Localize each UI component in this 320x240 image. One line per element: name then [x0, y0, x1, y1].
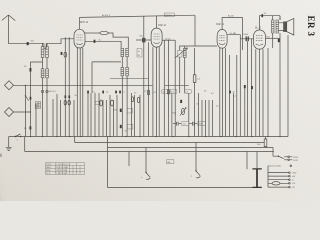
ground [6, 137, 12, 151]
svg-text:Ah 307 V: Ah 307 V [102, 14, 111, 17]
potentiometer [180, 108, 186, 116]
wire V1 anode up [79, 17, 81, 29]
resistor [100, 100, 103, 106]
component row labels [53, 90, 237, 108]
junction dots [30, 136, 281, 137]
label box [95, 101, 100, 104]
svg-text:Naf: Naf [267, 36, 271, 38]
svg-text:30 1 15 2 45 8: 30 1 15 2 45 8 [56, 170, 67, 172]
svg-text:Netzanschluß: Netzanschluß [269, 165, 282, 168]
label box [127, 124, 132, 129]
trimmer capacitor [41, 90, 43, 92]
wire [194, 48, 196, 137]
terminal rows [268, 166, 297, 189]
rail B [108, 137, 274, 148]
capacitor [120, 109, 122, 112]
wire [265, 137, 267, 148]
chassis rectangle [108, 148, 253, 188]
wire V1 to resistor [85, 32, 100, 34]
ground bus [9, 136, 288, 138]
tube V1 DCH11 [74, 29, 85, 48]
svg-text:Naf: Naf [140, 36, 144, 38]
svg-text:DAF11: DAF11 [46, 166, 51, 169]
label box [137, 49, 142, 58]
oscillator coil box [178, 51, 183, 58]
capacitor [261, 14, 263, 17]
IF transformer T1 coils [121, 48, 124, 56]
capacitor C1 [27, 42, 29, 45]
wire [110, 78, 149, 80]
svg-text:45 75 0,2 45 30: 45 75 0,2 45 30 [56, 167, 68, 169]
wire [30, 62, 42, 137]
output transformer primary [272, 20, 275, 33]
label [162, 90, 169, 93]
capacitor [94, 40, 96, 43]
coil L1a [41, 47, 44, 58]
wire V4 anode to transformer [259, 16, 280, 30]
AVC bus wire [165, 84, 189, 86]
wire to band filter / V1 grid [29, 39, 74, 49]
pickup diamond 1 [5, 81, 14, 90]
switch S1 [141, 148, 150, 180]
tube V2 DAF11 [151, 28, 162, 47]
table [46, 163, 85, 175]
antenna [2, 15, 16, 44]
capacitor [244, 85, 246, 88]
label 300 ohm boxed [164, 13, 174, 17]
wire coil links [43, 44, 48, 137]
capacitor [115, 91, 117, 94]
wire V2 top cap [156, 16, 158, 28]
capacitor [65, 95, 67, 98]
input switch [25, 96, 28, 101]
coil L4b [38, 102, 40, 109]
label [170, 90, 177, 93]
capacitor [87, 91, 89, 94]
svg-text:ER 3: ER 3 [306, 16, 316, 37]
capacitor [68, 95, 70, 98]
capacitor [251, 86, 253, 89]
wire V3 top [222, 18, 242, 51]
resistor [167, 89, 169, 94]
capacitor [30, 97, 32, 100]
capacitor [120, 125, 122, 128]
svg-text:220V: 220V [293, 157, 298, 159]
label box Wk [167, 160, 174, 164]
pickup diamond 2 [5, 108, 14, 117]
label boxed [182, 122, 189, 126]
svg-text:DAF 11: DAF 11 [216, 23, 224, 26]
svg-text:Reg: Reg [173, 113, 177, 115]
label box [127, 108, 132, 113]
resistor [111, 100, 114, 106]
capacitor symbol [189, 122, 197, 126]
resistor [64, 100, 66, 105]
grid capacitor [142, 38, 143, 43]
wire V2 anode right [162, 39, 175, 41]
resistor R5 [193, 75, 196, 83]
coil L2a [41, 69, 44, 78]
svg-text:12 kΩ: 12 kΩ [165, 38, 171, 40]
wire [77, 48, 117, 137]
svg-text:2,1 90 15 30 5: 2,1 90 15 30 5 [56, 173, 67, 175]
wire [132, 37, 189, 137]
junction [25, 85, 26, 86]
wire [122, 57, 127, 137]
wire [129, 152, 247, 170]
resistor [147, 90, 149, 95]
arrow [176, 48, 188, 58]
wire [199, 39, 269, 137]
wire V3 plate to V4 grid [227, 35, 253, 39]
label boxed [198, 122, 205, 126]
coupling capacitor [246, 36, 247, 41]
svg-text:DCH11: DCH11 [46, 164, 51, 166]
wire V1 screen [85, 41, 121, 48]
svg-text:300 Ω: 300 Ω [165, 15, 171, 17]
resistor R mains [264, 139, 267, 147]
wire transformer to speaker [273, 16, 284, 137]
svg-text:DAF11: DAF11 [46, 169, 51, 172]
vertical wires comb [36, 40, 74, 137]
svg-text:DCH 11: DCH 11 [80, 22, 89, 24]
capacitor [30, 126, 32, 129]
capacitor [278, 39, 280, 42]
svg-text:+90V: +90V [292, 173, 297, 175]
wire drop [194, 15, 196, 46]
wire [24, 85, 26, 136]
tube V3 DAF11 [217, 30, 227, 49]
coil L4a [35, 102, 37, 109]
svg-text:0,1 MΩ: 0,1 MΩ [230, 33, 237, 35]
battery [252, 152, 261, 188]
svg-text:Wk: Wk [168, 162, 171, 164]
wire antenna to coupling cap [9, 43, 27, 45]
wire ticks [65, 37, 69, 40]
trimmer capacitor [46, 90, 48, 92]
rail C [25, 137, 274, 152]
capacitor [102, 91, 104, 94]
wire plate to IF [108, 33, 128, 48]
coil L1b [46, 47, 49, 58]
wire [287, 35, 289, 137]
svg-text:Anode: Anode [228, 15, 235, 18]
resistor [131, 97, 133, 102]
capacitor symbol [173, 122, 181, 126]
svg-text:DAF 11: DAF 11 [158, 24, 166, 27]
wire pickup 2 [14, 111, 31, 113]
anode supply wire [80, 15, 196, 17]
label [185, 90, 192, 93]
rail A [75, 137, 264, 143]
wire V4 right [266, 37, 281, 39]
resistor R1 [100, 31, 108, 34]
capacitor C2 [30, 68, 32, 72]
resistor [68, 100, 70, 105]
svg-text:1,2 30 90 50 1,9: 1,2 30 90 50 1,9 [56, 164, 68, 166]
capacitor [180, 100, 182, 103]
svg-text:DL 11: DL 11 [46, 173, 50, 175]
tube V4 DL11 [254, 30, 266, 49]
resistor [64, 52, 67, 57]
resistor [137, 97, 139, 102]
output transformer secondary [276, 20, 279, 33]
wire drop [143, 16, 145, 37]
switch S2 [191, 143, 200, 178]
svg-text:110V: 110V [293, 160, 298, 162]
fuse [272, 182, 280, 185]
bus switch [16, 134, 21, 137]
capacitor [61, 52, 63, 55]
wire IF to V2 grid [136, 39, 151, 41]
capacitor [229, 91, 231, 94]
wire [92, 62, 121, 93]
svg-text:DL 11: DL 11 [255, 28, 262, 30]
wire [180, 46, 217, 93]
coil L3 [183, 49, 186, 58]
power switch [273, 148, 299, 162]
coil L2b [46, 69, 49, 78]
speaker [284, 18, 294, 35]
wire pickup 1 [14, 84, 153, 86]
capacitor [119, 91, 121, 94]
